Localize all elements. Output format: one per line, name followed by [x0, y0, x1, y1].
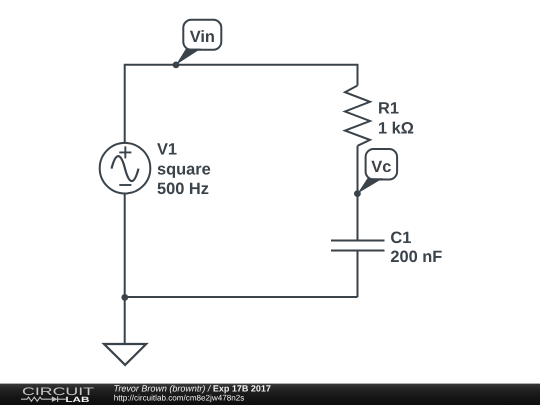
footer bar — [0, 384, 540, 405]
wire top-left vertical + top horizontal to R1 — [125, 65, 358, 143]
svg-text:1 kΩ: 1 kΩ — [378, 119, 414, 137]
V1 minus sign — [119, 184, 131, 186]
node Vin dot — [173, 62, 180, 69]
V1 sine wave — [112, 156, 139, 181]
svg-text:Vc: Vc — [371, 158, 391, 176]
flag Vc tail — [358, 178, 384, 193]
flag Vin tail — [176, 49, 201, 65]
voltage source V1 circle — [100, 143, 151, 194]
node Vc dot — [354, 190, 361, 197]
wire bottom horizontal — [125, 296, 358, 298]
wire V1 bottom to ground — [124, 193, 126, 344]
flag Vin box — [183, 20, 221, 50]
svg-text:http://circuitlab.com/cm8e2jw4: http://circuitlab.com/cm8e2jw478n2s — [114, 394, 244, 403]
logo diode triangle — [52, 396, 58, 402]
svg-text:square: square — [157, 160, 211, 178]
svg-text:R1: R1 — [378, 100, 399, 118]
node ground junction dot — [121, 294, 128, 301]
svg-text:Vin: Vin — [190, 28, 215, 46]
wire R1 to C1 — [357, 146, 359, 241]
svg-text:Trevor Brown (browntr) / Exp 1: Trevor Brown (browntr) / Exp 17B 2017 — [114, 384, 271, 394]
resistor R1 — [345, 86, 370, 146]
wire C1 to bottom node — [357, 251, 359, 298]
capacitor C1 — [331, 241, 385, 251]
logo resistor-diode squiggle — [21, 396, 66, 402]
svg-text:500 Hz: 500 Hz — [157, 180, 209, 198]
svg-text:200 nF: 200 nF — [390, 248, 442, 266]
svg-text:C1: C1 — [390, 229, 411, 247]
flag Vc box — [366, 149, 398, 180]
svg-text:LAB: LAB — [65, 395, 90, 404]
ground — [104, 344, 146, 365]
svg-text:V1: V1 — [157, 141, 177, 159]
V1 plus sign — [119, 146, 131, 158]
